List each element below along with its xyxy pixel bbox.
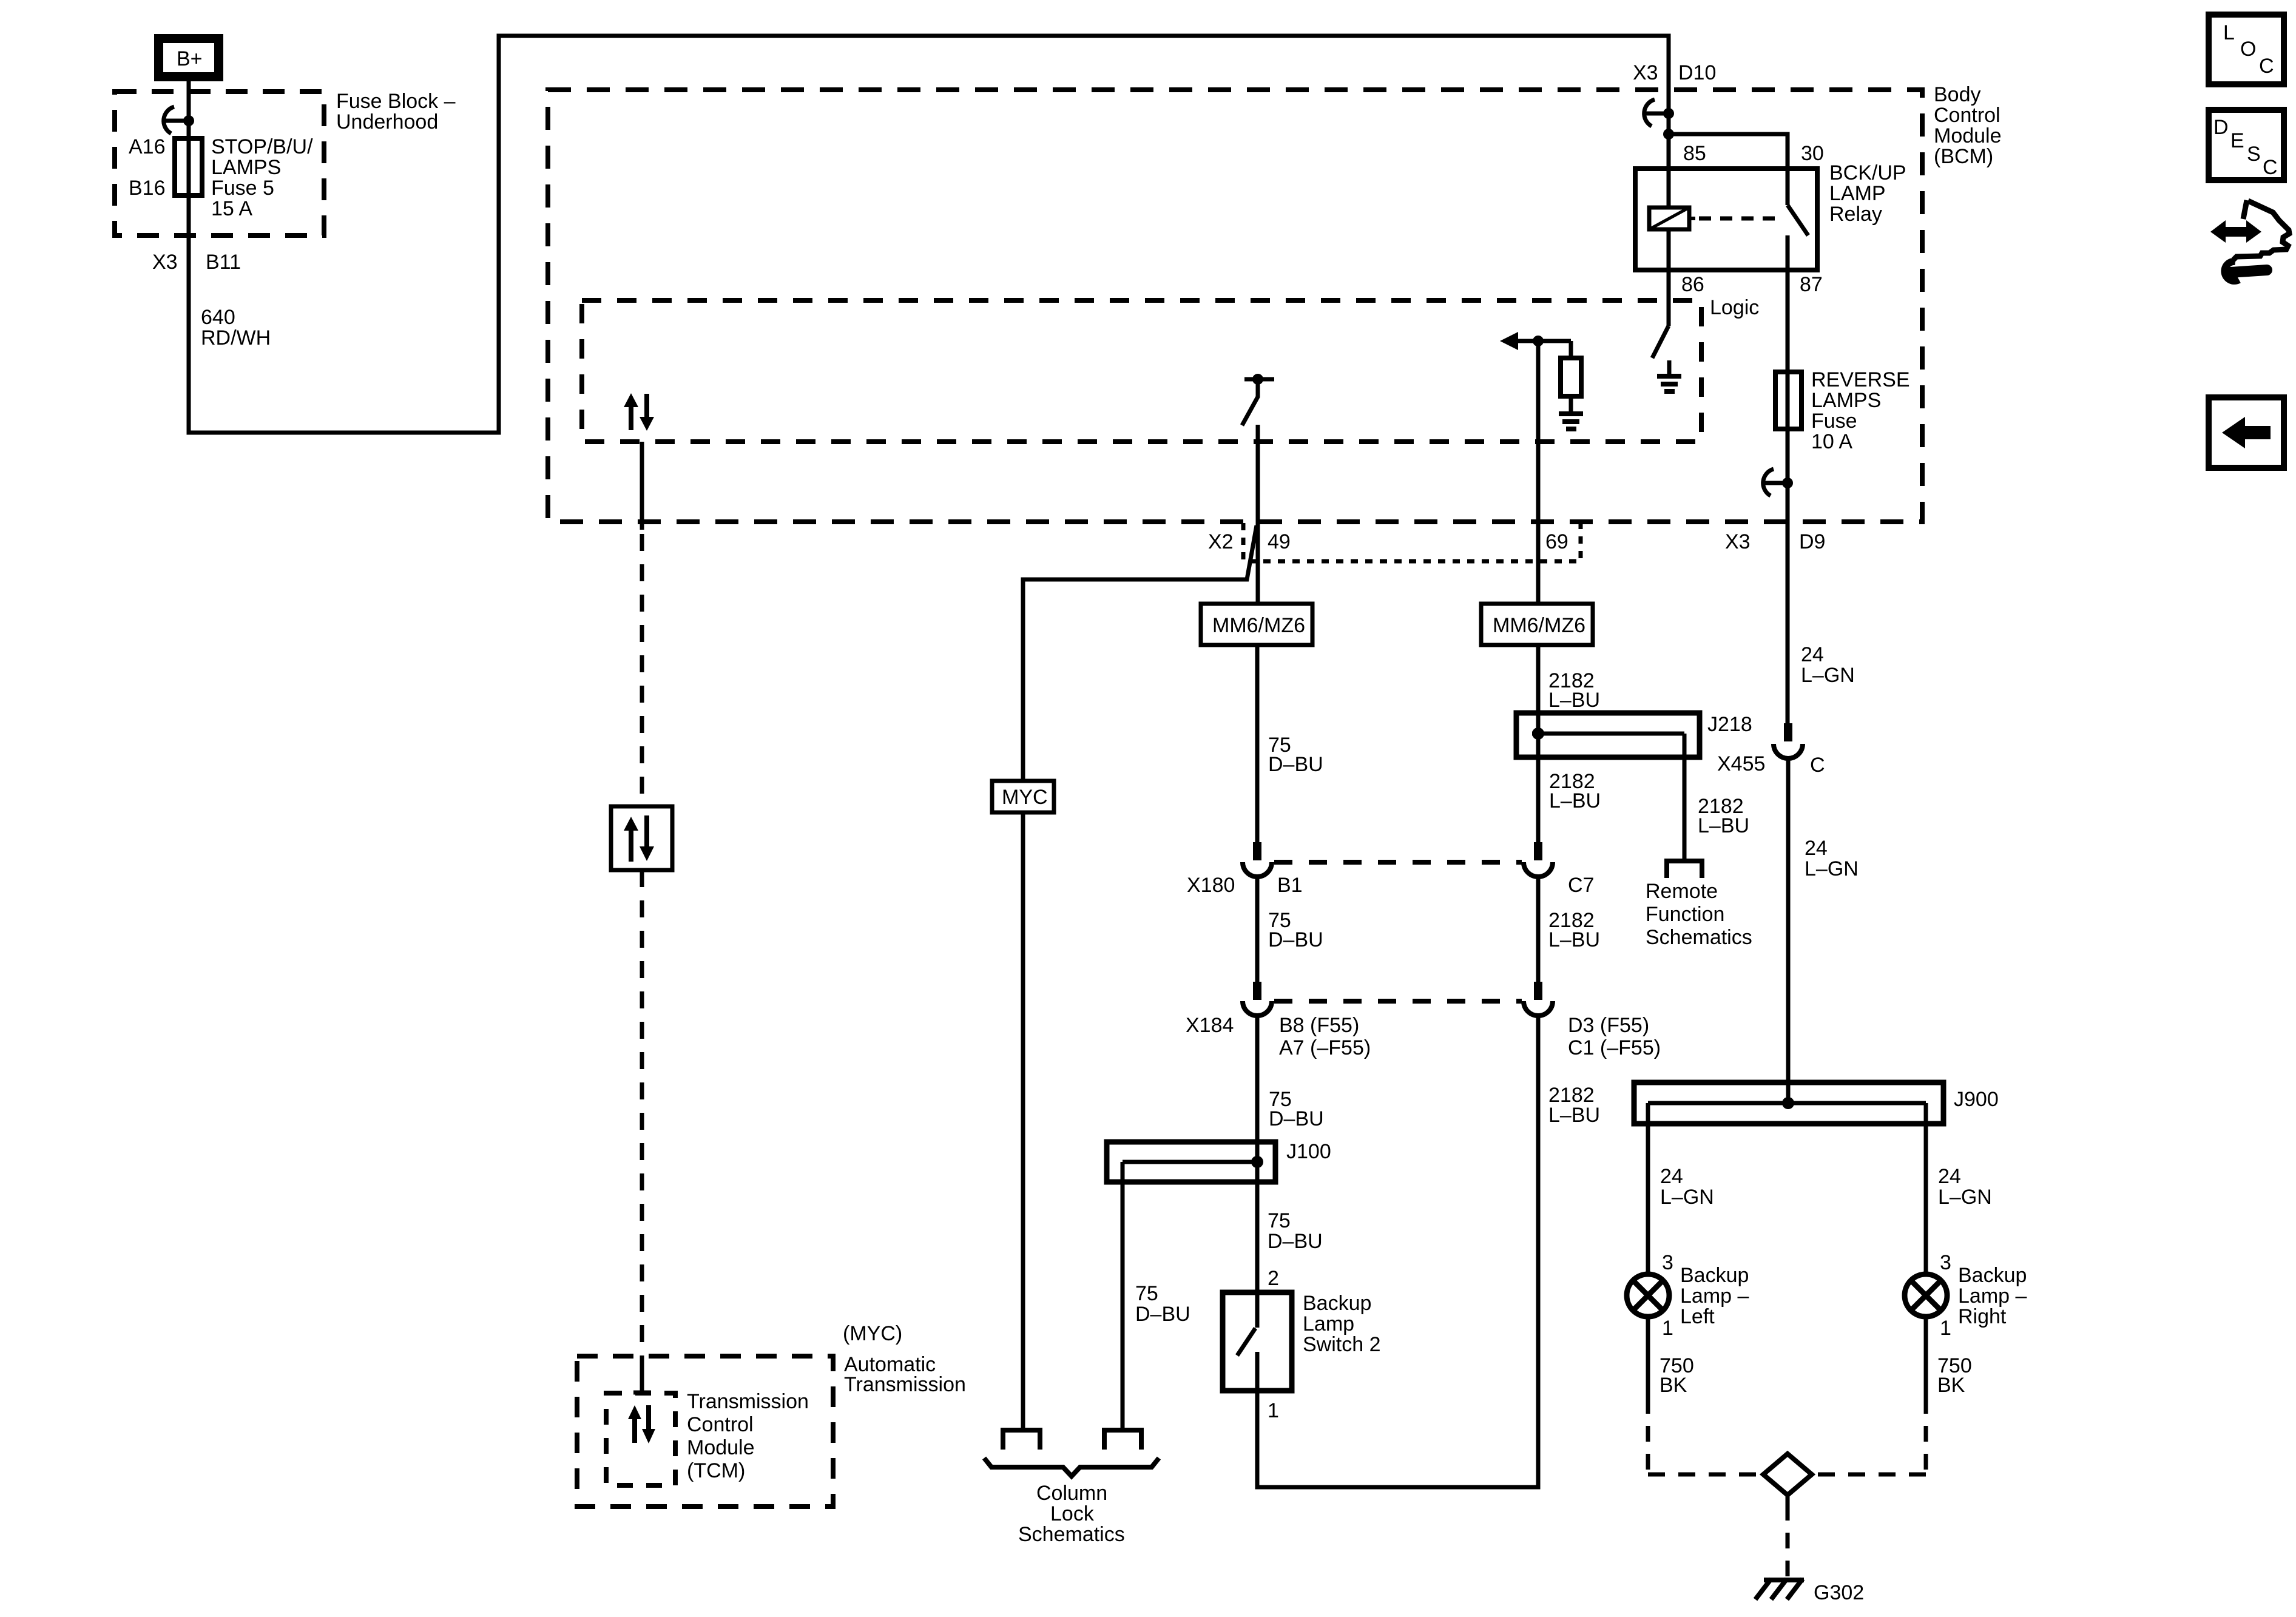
body control module BCM dashed box <box>548 90 1922 522</box>
svg-text:MM6/MZ6: MM6/MZ6 <box>1493 614 1585 637</box>
relay actuation dashed link <box>1699 217 1783 221</box>
MM6/MZ6 option box (right) <box>1481 604 1593 645</box>
svg-text:D–BU: D–BU <box>1268 753 1323 776</box>
TCM outer dashed box <box>577 1356 833 1507</box>
svg-text:24: 24 <box>1801 643 1824 666</box>
svg-text:D3 (F55): D3 (F55) <box>1568 1014 1649 1037</box>
svg-text:X180: X180 <box>1187 874 1235 897</box>
svg-text:D–BU: D–BU <box>1269 1107 1324 1130</box>
svg-text:Underhood: Underhood <box>336 110 438 133</box>
svg-text:Control: Control <box>1934 104 2001 127</box>
splice diamond to G302 <box>1763 1454 1812 1495</box>
wire: J900 right leg to backup lamp right <box>1924 1103 1928 1275</box>
svg-text:D9: D9 <box>1799 530 1825 553</box>
terminal bar at TCM inner box <box>633 1391 651 1395</box>
svg-text:C: C <box>1810 754 1825 777</box>
svg-text:Right: Right <box>1958 1305 2007 1328</box>
svg-text:S: S <box>2247 143 2261 166</box>
svg-text:24: 24 <box>1805 837 1828 860</box>
svg-text:Backup: Backup <box>1680 1264 1749 1287</box>
relay BCK/UP LAMP box <box>1635 169 1817 270</box>
svg-text:L–GN: L–GN <box>1660 1186 1714 1209</box>
wire: J900 left leg to backup lamp left <box>1646 1103 1650 1275</box>
wire: 750 BK below right lamp <box>1924 1316 1928 1398</box>
icon part outline <box>2234 200 2289 260</box>
svg-text:B16: B16 <box>129 177 166 200</box>
wire: logic 69 down through X2 and MM6/MZ6 to J218 <box>1536 341 1541 734</box>
ground G302 symbol <box>1764 1578 1804 1582</box>
svg-text:3: 3 <box>1940 1251 1951 1274</box>
MM6/MZ6 option box (left) <box>1201 604 1312 645</box>
svg-text:REVERSE: REVERSE <box>1811 368 1910 391</box>
svg-text:Switch 2: Switch 2 <box>1303 1333 1381 1356</box>
svg-text:B11: B11 <box>206 251 241 274</box>
svg-text:Lamp –: Lamp – <box>1680 1284 1749 1308</box>
svg-text:Backup: Backup <box>1303 1292 1371 1315</box>
svg-text:MYC: MYC <box>1002 786 1048 809</box>
svg-text:Left: Left <box>1680 1305 1715 1328</box>
svg-text:2: 2 <box>1268 1267 1279 1290</box>
wire: branch from pin 49 to MYC <box>1023 525 1257 782</box>
svg-text:Fuse: Fuse <box>1811 410 1857 433</box>
brace for column lock schematics <box>984 1458 1159 1476</box>
connector X455 pin C (male pin + female cup) <box>1784 723 1792 741</box>
svg-text:Module: Module <box>1934 124 2002 147</box>
ground below resistor <box>1559 411 1583 416</box>
icon DESC box <box>2209 110 2284 180</box>
svg-text:B1: B1 <box>1277 874 1303 897</box>
svg-text:Fuse 5: Fuse 5 <box>211 177 274 200</box>
svg-text:Function: Function <box>1646 903 1724 926</box>
connector X180 pin B1 (pin + cup) <box>1253 842 1261 860</box>
logic dashed box inside BCM <box>582 300 1701 442</box>
svg-text:Relay: Relay <box>1829 203 1882 226</box>
fuse 5 STOP/B/U/LAMPS body <box>175 138 202 195</box>
TCM inner dashed box <box>606 1393 675 1485</box>
svg-text:X3: X3 <box>1725 530 1751 553</box>
svg-text:Transmission: Transmission <box>844 1373 966 1396</box>
connector row dashed line X184 <box>1274 999 1522 1004</box>
svg-text:49: 49 <box>1268 530 1291 553</box>
wire: logic 49 down to X2 pin 49 and MM6/MZ6 <box>1256 425 1260 607</box>
svg-text:L–BU: L–BU <box>1548 1104 1600 1127</box>
svg-text:L–BU: L–BU <box>1548 928 1600 951</box>
backup lamp left symbol <box>1627 1274 1669 1317</box>
svg-text:B8 (F55): B8 (F55) <box>1279 1014 1359 1037</box>
svg-text:J218: J218 <box>1707 713 1752 736</box>
svg-text:Schematics: Schematics <box>1018 1523 1125 1546</box>
svg-text:B+: B+ <box>177 47 203 70</box>
connector X184 pin D3/C1 (pin + cup) <box>1534 982 1542 1000</box>
wire: 75 D-BU from X184 through J100 to switch pin 2 <box>1255 1016 1260 1328</box>
icon double arrow (diagnostic) <box>2210 220 2261 243</box>
svg-text:L–BU: L–BU <box>1698 814 1749 837</box>
wire: 75 D-BU from MM6/MZ6 to X180 B1 <box>1255 642 1260 843</box>
svg-text:Module: Module <box>687 1436 755 1459</box>
svg-text:(MYC): (MYC) <box>843 1322 902 1345</box>
splice pack J218 box <box>1516 713 1700 757</box>
icon wrench <box>2224 262 2239 281</box>
svg-text:BK: BK <box>1660 1374 1687 1397</box>
node on wire 69 <box>1533 336 1544 346</box>
wire: relay pin 87 down through reverse lamps fuse <box>1786 235 1790 723</box>
switch blade at logic pin 86 <box>1652 326 1669 358</box>
ground inside logic box (pin 86) <box>1667 360 1672 375</box>
svg-text:L–GN: L–GN <box>1938 1186 1992 1209</box>
J900 internal bus <box>1648 1101 1926 1106</box>
connector row dashed line X180 <box>1274 860 1522 865</box>
switch blade at logic output 49 <box>1242 382 1258 425</box>
svg-text:RD/WH: RD/WH <box>201 326 271 349</box>
svg-text:L–BU: L–BU <box>1549 789 1601 812</box>
svg-text:X3: X3 <box>1633 61 1658 84</box>
svg-text:E: E <box>2230 129 2244 152</box>
svg-text:C7: C7 <box>1568 874 1594 897</box>
svg-text:Fuse Block –: Fuse Block – <box>336 90 456 113</box>
svg-text:Lamp: Lamp <box>1303 1312 1354 1335</box>
svg-text:69: 69 <box>1545 530 1568 553</box>
splice pack J100 box <box>1107 1142 1275 1182</box>
relay coil <box>1649 208 1689 229</box>
up/down arrows inside TCM <box>632 1418 637 1443</box>
svg-text:LAMPS: LAMPS <box>1811 389 1881 412</box>
svg-text:D–BU: D–BU <box>1135 1303 1190 1326</box>
switch contact bar at logic output 49 <box>1244 377 1274 382</box>
backup lamp right symbol <box>1905 1274 1947 1317</box>
svg-text:87: 87 <box>1800 273 1823 296</box>
svg-text:D–BU: D–BU <box>1268 1230 1323 1253</box>
icon back arrow box <box>2209 397 2284 468</box>
svg-text:BCK/UP: BCK/UP <box>1829 161 1906 184</box>
svg-text:X455: X455 <box>1717 752 1765 775</box>
svg-text:G302: G302 <box>1814 1581 1864 1604</box>
wire: B+ feed 640 RD/WH from fuse block to BCM X3 D10 <box>189 36 1669 433</box>
svg-text:J100: J100 <box>1286 1140 1331 1163</box>
svg-text:D10: D10 <box>1678 61 1716 84</box>
svg-text:LAMPS: LAMPS <box>211 156 281 179</box>
column lock terminal right <box>1104 1430 1141 1450</box>
svg-text:30: 30 <box>1801 142 1824 165</box>
connector X180 pin C7 (pin + cup) <box>1534 842 1542 860</box>
svg-text:Body: Body <box>1934 83 1981 106</box>
svg-text:10 A: 10 A <box>1811 430 1852 453</box>
svg-text:75: 75 <box>1135 1282 1158 1305</box>
svg-text:X2: X2 <box>1208 530 1234 553</box>
wire: logic to TCM (solid then dashed) <box>640 442 644 530</box>
svg-text:L: L <box>2223 21 2235 44</box>
svg-text:24: 24 <box>1660 1165 1683 1188</box>
off-page terminal (remote function) <box>1667 861 1702 878</box>
svg-text:BK: BK <box>1937 1374 1965 1397</box>
svg-text:LAMP: LAMP <box>1829 182 1886 205</box>
svg-text:Control: Control <box>687 1413 754 1436</box>
fuse block underhood dashed box <box>115 92 324 235</box>
wire: J100 left leg down to column lock terminal <box>1121 1162 1125 1430</box>
svg-text:Schematics: Schematics <box>1646 926 1752 949</box>
svg-text:(TCM): (TCM) <box>687 1459 745 1482</box>
svg-text:75: 75 <box>1268 1209 1291 1232</box>
wire: branch to relay pin 30 <box>1669 134 1788 205</box>
connector X2 dotted box around pins 49/69 <box>1243 523 1581 561</box>
svg-text:Lamp –: Lamp – <box>1958 1284 2027 1308</box>
svg-text:85: 85 <box>1683 142 1706 165</box>
svg-text:Lock: Lock <box>1050 1502 1095 1525</box>
svg-text:3: 3 <box>1662 1251 1673 1274</box>
J100 internal bus <box>1123 1160 1257 1164</box>
svg-text:640: 640 <box>201 306 235 329</box>
switch blade inside backup lamp switch 2 <box>1237 1328 1255 1355</box>
relay switch blade pin30-pin87 <box>1788 205 1808 235</box>
svg-text:STOP/B/U/: STOP/B/U/ <box>211 135 313 158</box>
arrow (signal to other sheet) at logic output 69 <box>1500 332 1518 350</box>
up/down arrows inside logic box (column lock signal) <box>629 405 633 430</box>
svg-text:A7 (–F55): A7 (–F55) <box>1279 1036 1371 1059</box>
backup lamp switch 2 box <box>1223 1292 1292 1391</box>
wire: 750 BK below left lamp <box>1646 1316 1650 1398</box>
node: relay pin85/pin30 branch junction <box>1663 129 1674 140</box>
svg-text:MM6/MZ6: MM6/MZ6 <box>1212 614 1305 637</box>
svg-text:J900: J900 <box>1954 1088 1999 1111</box>
wire: J218 right leg to remote function schematics <box>1683 734 1687 861</box>
wire: 2182 L-BU from X180 to X184 <box>1536 877 1541 983</box>
wire: 2182 L-BU from J218 down to X180 C7 <box>1536 734 1541 843</box>
svg-text:1: 1 <box>1268 1399 1279 1422</box>
wire: MYC down to column lock terminal <box>1021 811 1025 1430</box>
svg-text:L–BU: L–BU <box>1548 689 1600 712</box>
svg-text:L–GN: L–GN <box>1805 857 1859 880</box>
svg-text:A16: A16 <box>129 135 166 158</box>
svg-text:Logic: Logic <box>1710 296 1759 319</box>
svg-text:D: D <box>2213 116 2229 139</box>
B+ power box <box>154 34 223 81</box>
svg-text:Transmission: Transmission <box>687 1390 809 1413</box>
J218 internal bus <box>1532 732 1684 736</box>
svg-text:D–BU: D–BU <box>1268 928 1323 951</box>
svg-text:C: C <box>2263 156 2278 179</box>
wire: dashed continuation to TCM <box>640 870 644 1358</box>
reverse lamps fuse body <box>1775 372 1801 429</box>
wire: switch pin 1 down, right and up to X184 D3/C1 <box>1257 1016 1538 1487</box>
clip connector on D9 wire <box>1763 469 1774 496</box>
wire: relay pin 86 to logic switch <box>1667 229 1671 326</box>
svg-text:(BCM): (BCM) <box>1934 145 1993 168</box>
svg-text:Remote: Remote <box>1646 880 1718 903</box>
clip connector at fuse A16 <box>164 107 174 133</box>
wire: 75 D-BU from X180 to X184 <box>1255 877 1260 983</box>
svg-text:X184: X184 <box>1186 1014 1234 1037</box>
icon LOC box <box>2209 15 2284 84</box>
svg-text:1: 1 <box>1940 1317 1951 1340</box>
svg-text:L–GN: L–GN <box>1801 664 1855 687</box>
connector X184 pin B8/A7 (pin + cup) <box>1253 982 1261 1000</box>
column lock terminal left <box>1003 1430 1040 1450</box>
clip connector at BCM X3 D10 <box>1644 100 1655 126</box>
MYC option box <box>992 781 1054 812</box>
svg-text:15 A: 15 A <box>211 197 252 220</box>
svg-text:24: 24 <box>1938 1165 1961 1188</box>
svg-text:C: C <box>2259 55 2274 78</box>
resistor to ground inside logic box <box>1569 341 1573 358</box>
svg-text:Backup: Backup <box>1958 1264 2027 1287</box>
svg-text:1: 1 <box>1662 1317 1673 1340</box>
splice pack J900 box <box>1634 1082 1943 1124</box>
up/down arrow box on TCM wire <box>611 806 672 870</box>
svg-text:O: O <box>2240 38 2256 61</box>
svg-text:X3: X3 <box>152 251 178 274</box>
svg-text:C1 (–F55): C1 (–F55) <box>1568 1036 1661 1059</box>
svg-text:86: 86 <box>1681 273 1704 296</box>
svg-text:Column: Column <box>1036 1482 1107 1505</box>
wire: 24 L-GN from X455 to J900 <box>1786 758 1791 1103</box>
